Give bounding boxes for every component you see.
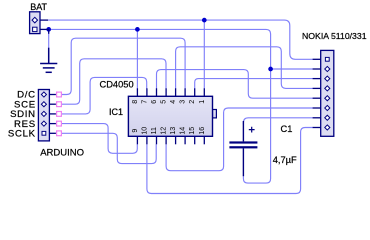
svg-text:C1: C1 bbox=[281, 124, 293, 134]
svg-text:6: 6 bbox=[150, 100, 158, 104]
svg-text:4,7µF: 4,7µF bbox=[273, 155, 297, 165]
svg-text:11: 11 bbox=[150, 127, 158, 134]
wire VDD drop from junction to IC pin 1 bbox=[203, 20, 205, 89]
wire IC pin 10 output to NOKIA pin 8 bbox=[147, 128, 313, 194]
svg-text:3: 3 bbox=[179, 100, 187, 104]
svg-text:13: 13 bbox=[169, 127, 177, 135]
junction at BAT- to ground bbox=[46, 27, 51, 32]
wire GND branch to ground symbol bbox=[48, 29, 50, 48]
junction BAT+ to IC pin 1 bbox=[202, 18, 207, 23]
svg-text:4: 4 bbox=[169, 100, 177, 104]
connector BAT bbox=[30, 12, 49, 34]
wire D/C to IC pin 3 bbox=[61, 38, 185, 94]
capacitor C1 bbox=[229, 121, 257, 176]
svg-text:9: 9 bbox=[131, 129, 139, 133]
junction GND to NOKIA pin 2 bbox=[268, 67, 273, 72]
wire capacitor top to NOKIA pin 7 bbox=[243, 118, 312, 125]
connector ARDUINO bbox=[38, 90, 56, 141]
svg-text:2: 2 bbox=[188, 100, 196, 104]
wire IC pin 6 output to NOKIA pin 5 bbox=[157, 70, 313, 99]
wire GND branch to IC pin 8 bbox=[136, 29, 138, 88]
svg-text:10: 10 bbox=[140, 127, 148, 135]
svg-text:8: 8 bbox=[131, 100, 139, 104]
wire IC pin 4 output to NOKIA pin 4 bbox=[176, 47, 313, 89]
pin stubs pink pads ARDUINO bbox=[57, 92, 62, 136]
svg-text:SCLK: SCLK bbox=[8, 129, 36, 140]
svg-text:14: 14 bbox=[179, 127, 187, 135]
svg-text:7: 7 bbox=[140, 100, 148, 104]
svg-text:CD4050: CD4050 bbox=[100, 80, 134, 90]
svg-text:1: 1 bbox=[198, 100, 206, 104]
svg-text:NOKIA 5110/331: NOKIA 5110/331 bbox=[302, 31, 367, 41]
wire GND branch to NOKIA pin2 bbox=[271, 68, 313, 70]
wire BAT+ top rail to NOKIA pin1 bbox=[48, 20, 313, 59]
wire junction stub to ground bbox=[48, 29, 50, 33]
wire RES to IC pin 9 bbox=[61, 124, 137, 154]
svg-text:15: 15 bbox=[188, 127, 196, 135]
svg-text:5: 5 bbox=[160, 100, 168, 104]
svg-text:12: 12 bbox=[160, 127, 168, 135]
ground bbox=[40, 48, 57, 73]
svg-text:ARDUINO: ARDUINO bbox=[40, 147, 84, 158]
wire SCLK to IC pin 11 bbox=[61, 133, 156, 163]
wire SCE to IC pin 5 bbox=[61, 59, 166, 104]
svg-text:IC1: IC1 bbox=[109, 107, 123, 117]
svg-text:BAT: BAT bbox=[30, 2, 47, 12]
svg-text:16: 16 bbox=[198, 127, 206, 135]
wire SDIN to IC pin 7 bbox=[61, 77, 146, 114]
wire IC pin 12 output to NOKIA pin 6 bbox=[166, 108, 313, 171]
wire IC pin 2 output to NOKIA pin 3 bbox=[195, 79, 313, 89]
junction GND to IC pin 8 bbox=[135, 27, 140, 32]
wire GND rail from BAT- down right side to capacitor bottom bbox=[49, 29, 271, 183]
connector NOKIA 5110/331 bbox=[313, 50, 334, 136]
IC U1 CD4050 body bbox=[128, 88, 216, 144]
